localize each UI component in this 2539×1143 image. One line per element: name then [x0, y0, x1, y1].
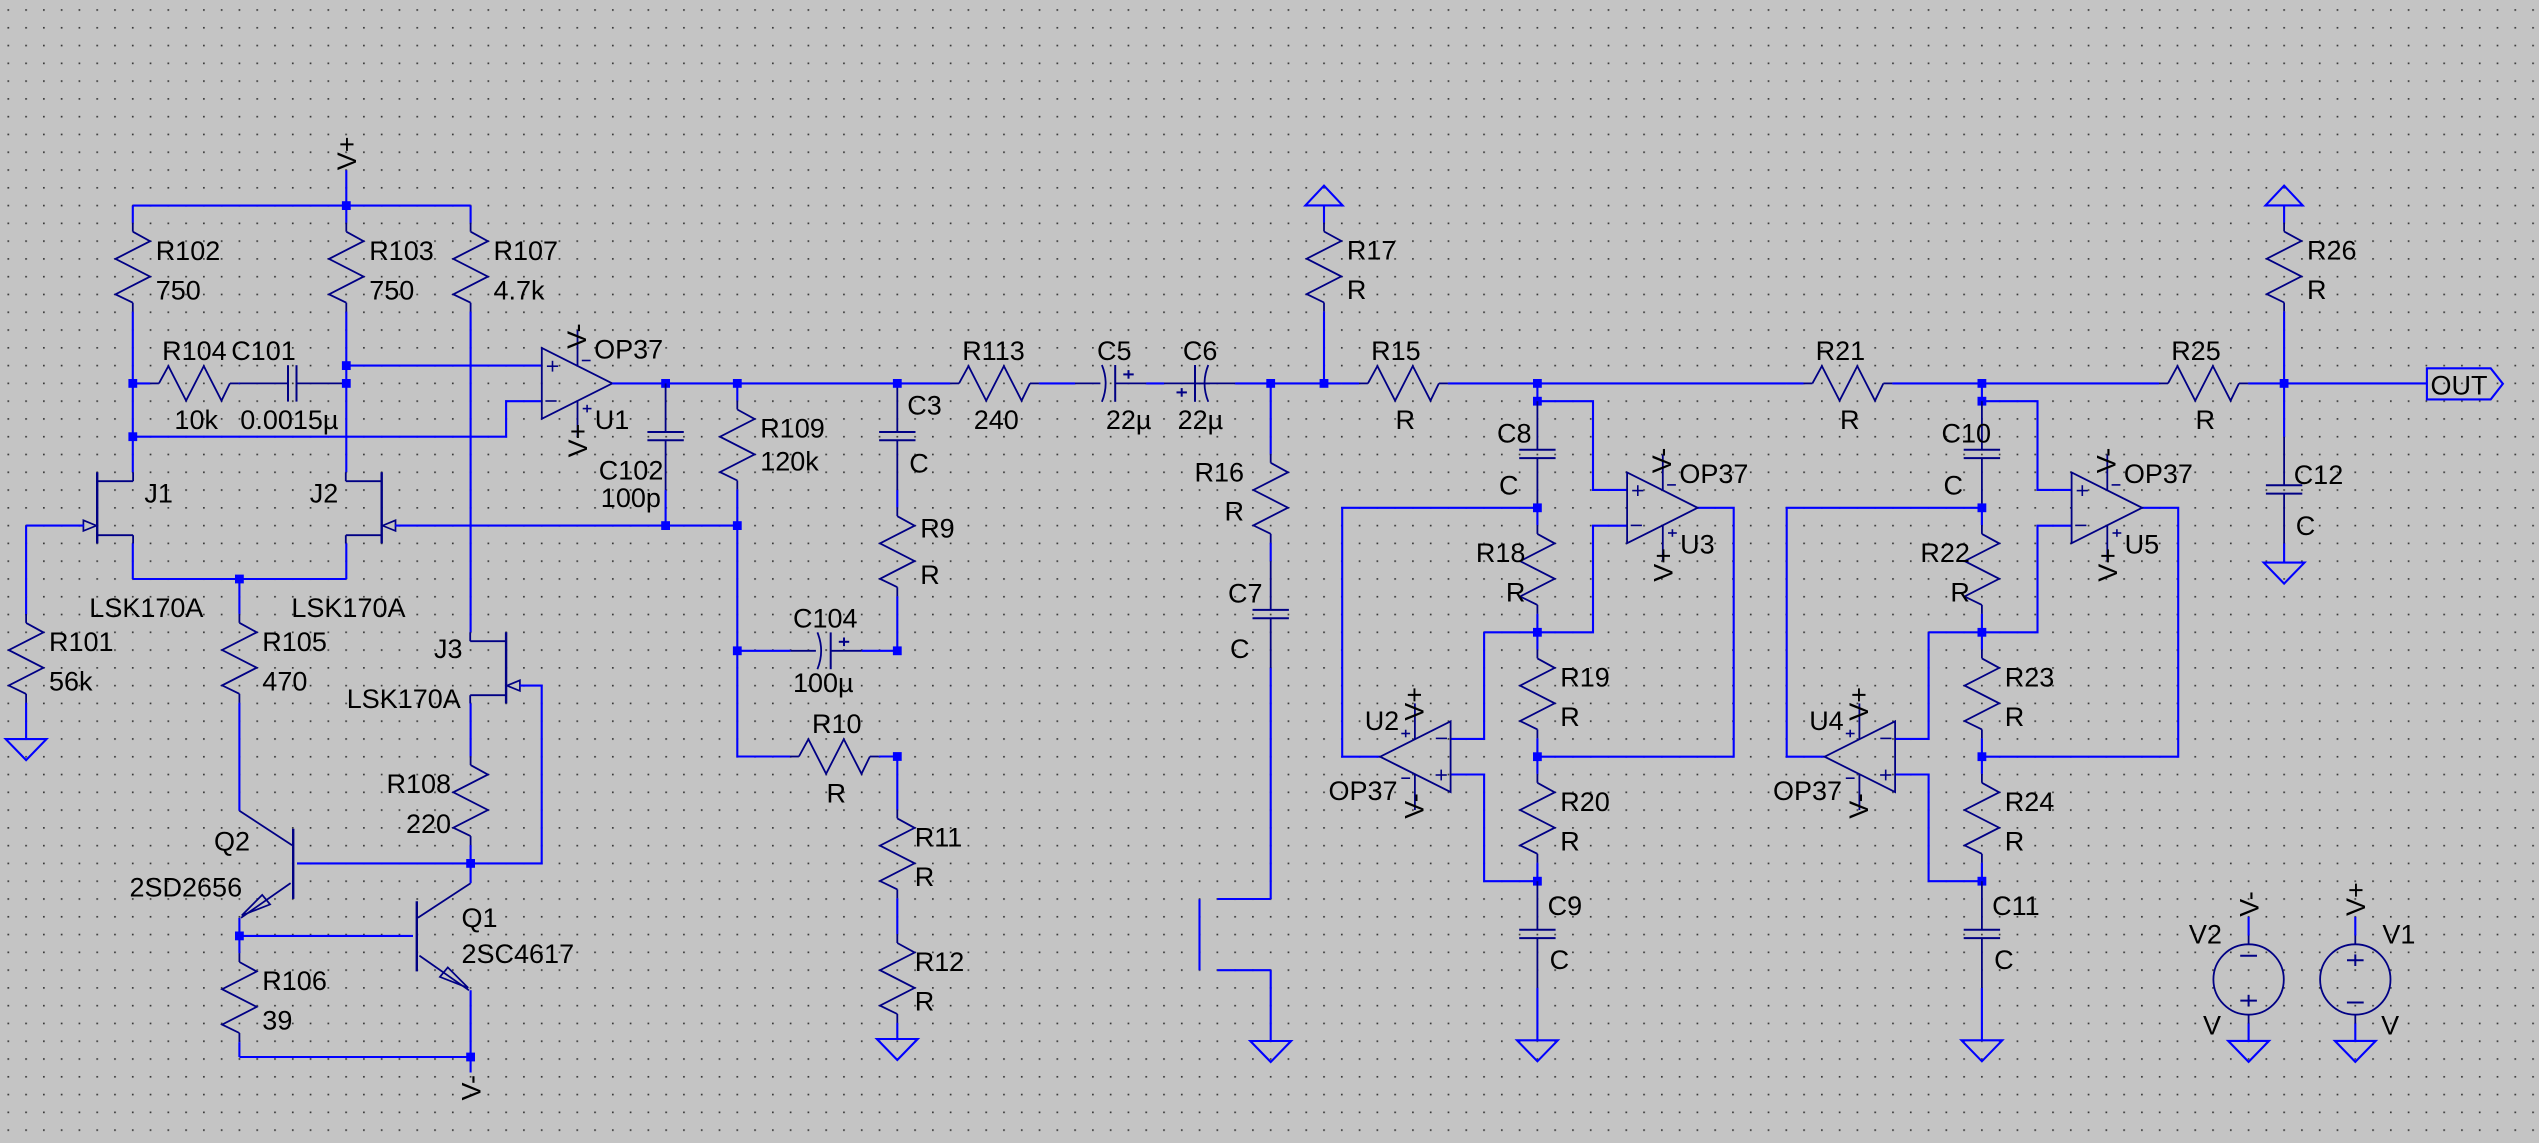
capacitor C102: [599, 383, 684, 513]
svg-text:Q1: Q1: [462, 903, 498, 933]
wire R106 bottom: [238, 1043, 240, 1057]
svg-text:U4: U4: [1809, 706, 1844, 736]
wire to U5 + input: [1982, 401, 2072, 490]
wire source row: [133, 578, 346, 580]
capacitor C9: [1519, 881, 1582, 988]
junction: [342, 361, 351, 370]
svg-text:2SD2656: 2SD2656: [130, 873, 243, 903]
svg-text:100p: 100p: [601, 483, 661, 513]
JFET J1: [83, 472, 203, 623]
wire Q1 base row: [239, 935, 413, 937]
svg-text:OP37: OP37: [1329, 776, 1398, 806]
svg-text:R: R: [920, 560, 940, 590]
svg-text:R10: R10: [812, 709, 862, 739]
svg-text:C101: C101: [231, 336, 296, 366]
wire top rail: [133, 205, 471, 207]
wire R to R junction: [1536, 615, 1538, 633]
svg-text:R106: R106: [262, 966, 327, 996]
resistor R10: [773, 709, 880, 808]
svg-text:22µ: 22µ: [1106, 405, 1152, 435]
op-amp U3: [1627, 448, 1748, 582]
svg-text:V-: V-: [562, 323, 592, 349]
junction: [1978, 752, 1987, 761]
junction: [466, 859, 475, 868]
svg-text:V+: V+: [563, 424, 593, 458]
svg-text:240: 240: [974, 405, 1019, 435]
wire R101 bottom: [25, 704, 27, 740]
wire C102 bottom: [665, 490, 667, 525]
ground: [6, 739, 47, 760]
resistor R19: [1520, 632, 1610, 739]
svg-text:R9: R9: [920, 514, 955, 544]
svg-text:10k: 10k: [174, 405, 218, 435]
junction: [342, 201, 351, 210]
resistor R11: [880, 792, 962, 899]
svg-text:4.7k: 4.7k: [494, 275, 546, 305]
svg-text:C9: C9: [1548, 891, 1583, 921]
resistor R101: [9, 597, 114, 704]
op-amp U5: [2072, 448, 2193, 582]
wire main row to OUT port: [2249, 382, 2427, 384]
svg-text:R101: R101: [49, 627, 114, 657]
resistor R104: [133, 336, 240, 435]
svg-text:V2: V2: [2189, 920, 2222, 950]
wire to U3 - input: [1537, 526, 1627, 633]
svg-text:U2: U2: [1365, 706, 1400, 736]
capacitor C101: [231, 336, 346, 435]
svg-text:C6: C6: [1183, 336, 1218, 366]
svg-text:470: 470: [262, 667, 307, 697]
wire C6 to R15: [1235, 382, 1342, 384]
wire C5 to C6: [1146, 382, 1164, 384]
svg-text:C7: C7: [1228, 579, 1263, 609]
resistor R109: [720, 383, 825, 490]
resistor R106: [222, 936, 327, 1043]
svg-text:J1: J1: [144, 478, 173, 508]
wire Q1 collector: [470, 863, 472, 883]
junction: [1533, 752, 1542, 761]
power flag (up arrow): [1305, 186, 1342, 206]
junction: [466, 1053, 475, 1062]
svg-text:R: R: [1840, 405, 1860, 435]
svg-text:120k: 120k: [760, 447, 819, 477]
ground: [2264, 563, 2305, 584]
resistor R107: [453, 206, 558, 313]
svg-text:C: C: [1499, 471, 1519, 501]
resistor R26: [2267, 205, 2357, 312]
wire R109 column down to R10: [737, 526, 773, 757]
svg-text:C: C: [1230, 634, 1250, 664]
wire U2 output feedback: [1342, 508, 1537, 757]
svg-text:R109: R109: [760, 414, 825, 444]
svg-text:R: R: [1950, 578, 1970, 608]
junction: [893, 752, 902, 761]
wire to ground: [1981, 988, 1983, 1040]
junction: [1266, 379, 1275, 388]
svg-text:39: 39: [262, 1006, 292, 1036]
wire J1 gate: [26, 525, 84, 527]
wire Q1 emitter: [470, 990, 472, 1057]
wire branch down: [1981, 383, 1983, 401]
wire to U3 + input: [1537, 401, 1627, 490]
ground: [1962, 1040, 2003, 1061]
wire R107 to J3 drain: [470, 312, 472, 632]
wire U5 output feedback: [1982, 508, 2178, 757]
junction: [893, 379, 902, 388]
wire: [1536, 739, 1538, 757]
svg-text:R20: R20: [1560, 787, 1610, 817]
transistor Q1: [417, 883, 574, 990]
resistor R16: [1194, 437, 1288, 544]
wire: [1536, 863, 1538, 881]
op-amp U1: [542, 323, 663, 457]
svg-text:LSK170A: LSK170A: [291, 593, 405, 623]
svg-text:R24: R24: [2005, 787, 2055, 817]
wire R113 to C5: [1040, 382, 1076, 384]
resistor R24: [1965, 757, 2055, 864]
svg-text:V+: V+: [1399, 687, 1429, 721]
capacitor C6 (polarized): [1164, 336, 1235, 435]
svg-text:R105: R105: [262, 627, 327, 657]
wire U2 + input: [1451, 775, 1538, 882]
wire R11 to R12: [896, 899, 898, 917]
svg-text:R17: R17: [1347, 236, 1397, 266]
wire R9 bottom: [896, 597, 898, 651]
svg-text:V+: V+: [332, 136, 362, 170]
wire to ground: [1536, 988, 1538, 1040]
svg-text:R26: R26: [2307, 236, 2357, 266]
JFET J2: [291, 472, 405, 623]
resistor R9: [880, 490, 955, 597]
svg-text:OUT: OUT: [2431, 370, 2488, 400]
junction: [128, 432, 137, 441]
svg-text:2SC4617: 2SC4617: [462, 939, 575, 969]
capacitor C11: [1964, 881, 2040, 988]
svg-text:V: V: [2381, 1011, 2399, 1041]
junction: [2280, 379, 2289, 388]
svg-text:U3: U3: [1680, 530, 1715, 560]
svg-text:C: C: [1944, 471, 1964, 501]
svg-text:OP37: OP37: [1679, 459, 1748, 489]
wire R12 bottom: [896, 1024, 898, 1039]
wire bottom row: [239, 1056, 470, 1058]
capacitor C10: [1942, 401, 2001, 508]
net V- flag stub: [470, 1057, 472, 1073]
svg-text:R: R: [1560, 702, 1580, 732]
wire R103 node to U1 + input: [346, 365, 542, 367]
junction: [1533, 628, 1542, 637]
svg-text:R102: R102: [156, 236, 221, 266]
wire C104 left lead: [737, 650, 790, 652]
resistor R17: [1307, 205, 1397, 312]
junction: [733, 521, 742, 530]
capacitor C12: [2266, 437, 2343, 544]
svg-text:R: R: [1506, 578, 1526, 608]
wire R11 top: [896, 757, 898, 793]
ground: [2335, 1041, 2376, 1062]
ground: [877, 1039, 918, 1060]
junction: [235, 575, 244, 584]
svg-text:220: 220: [406, 809, 451, 839]
wire R109 bottom: [736, 490, 738, 525]
svg-text:R108: R108: [386, 769, 451, 799]
svg-text:R: R: [1560, 827, 1580, 857]
svg-text:C104: C104: [793, 604, 858, 634]
junction: [661, 379, 670, 388]
wire R101 top: [25, 526, 27, 597]
svg-text:U5: U5: [2125, 530, 2160, 560]
svg-text:J2: J2: [310, 478, 339, 508]
junction: [128, 379, 137, 388]
svg-text:R: R: [1225, 497, 1245, 527]
svg-text:C: C: [909, 448, 929, 478]
svg-text:C8: C8: [1497, 418, 1532, 448]
power flag (up arrow): [2266, 186, 2303, 206]
svg-text:R15: R15: [1371, 336, 1421, 366]
svg-text:V: V: [2203, 1011, 2221, 1041]
wire V2 top lead: [2248, 917, 2250, 936]
svg-text:R: R: [826, 778, 846, 808]
wire R105 to Q2 collector: [238, 703, 240, 810]
wire to U4 - input: [1929, 631, 1982, 633]
wire R108 bottom: [470, 846, 472, 864]
svg-text:C3: C3: [907, 390, 942, 420]
ground: [1517, 1040, 1558, 1061]
wire U4 + input: [1895, 775, 1982, 882]
svg-text:C: C: [2296, 511, 2316, 541]
junction: [235, 932, 244, 941]
wire U1 output row: [612, 382, 933, 384]
transistor Q2: [130, 811, 294, 918]
wire R105 top: [238, 579, 240, 597]
svg-text:V1: V1: [2382, 920, 2415, 950]
op-amp U4: [1773, 687, 1895, 819]
svg-text:R: R: [2005, 702, 2025, 732]
svg-text:C12: C12: [2294, 460, 2344, 490]
junction: [1978, 503, 1987, 512]
svg-text:OP37: OP37: [2124, 459, 2193, 489]
wire C12 to ground: [2283, 543, 2285, 562]
capacitor C3: [879, 383, 942, 490]
wire R103 bottom: [345, 312, 347, 365]
JFET J3: [347, 632, 520, 714]
svg-text:R113: R113: [962, 336, 1025, 366]
ground: [1250, 1041, 1291, 1062]
wire J2 gate feedback row: [395, 525, 737, 527]
junction: [893, 646, 902, 655]
svg-text:OP37: OP37: [1773, 776, 1842, 806]
resistor R25: [2142, 336, 2249, 435]
wire J1 drain to U1 - input: [133, 401, 542, 437]
svg-text:V-: V-: [1647, 448, 1677, 474]
resistor R105: [222, 597, 327, 704]
svg-text:R23: R23: [2005, 663, 2055, 693]
wire J3 source to R108: [470, 703, 472, 739]
wire J1 source: [132, 543, 134, 579]
svg-text:R11: R11: [915, 823, 963, 853]
svg-text:V+: V+: [1649, 548, 1679, 582]
current source symbol: [1200, 899, 1271, 970]
capacitor C104 (polarized): [791, 604, 862, 699]
svg-text:V-: V-: [1844, 793, 1874, 819]
resistor R113: [933, 336, 1040, 435]
wire to U2 - input: [1484, 631, 1537, 633]
wire main row: [1893, 382, 2142, 384]
svg-text:0.0015µ: 0.0015µ: [240, 405, 338, 435]
wire U3 output feedback: [1537, 508, 1733, 757]
resistor R15: [1342, 336, 1449, 435]
capacitor C7: [1228, 561, 1289, 668]
wire Q2 emitter: [238, 918, 240, 936]
wire R16 to C7: [1270, 543, 1272, 561]
svg-text:R: R: [915, 862, 935, 892]
net V+ rail flag wire: [345, 170, 347, 205]
svg-text:C: C: [1550, 945, 1570, 975]
svg-text:Q2: Q2: [214, 827, 250, 857]
svg-text:R104: R104: [162, 336, 227, 366]
svg-text:V-: V-: [2234, 891, 2264, 917]
wire J1 drain column: [132, 383, 134, 472]
junction: [1533, 397, 1542, 406]
junction: [1320, 379, 1329, 388]
svg-text:R: R: [1395, 405, 1415, 435]
resistor R21: [1786, 336, 1893, 435]
svg-text:R103: R103: [369, 236, 434, 266]
wire R17 bottom: [1323, 312, 1325, 383]
resistor R20: [1520, 757, 1610, 864]
wire J2 drain column: [345, 366, 347, 473]
wire to U5 - input: [1982, 526, 2072, 633]
junction: [342, 379, 351, 388]
junction: [1533, 503, 1542, 512]
svg-text:V+: V+: [2341, 882, 2371, 916]
svg-text:R25: R25: [2171, 336, 2221, 366]
junction: [1978, 397, 1987, 406]
port OUT: [2427, 368, 2503, 400]
svg-text:100µ: 100µ: [793, 668, 854, 698]
wire J2 source: [345, 543, 347, 579]
wire U4 output feedback: [1787, 508, 1982, 757]
junction: [1978, 628, 1987, 637]
svg-text:R19: R19: [1560, 663, 1610, 693]
junction: [1978, 877, 1987, 886]
svg-text:J3: J3: [434, 634, 463, 664]
resistor R22: [1920, 508, 1999, 615]
svg-text:C5: C5: [1097, 336, 1132, 366]
svg-text:C10: C10: [1942, 418, 1992, 448]
svg-text:C11: C11: [1992, 891, 2040, 921]
wire branch down: [1536, 383, 1538, 401]
svg-text:750: 750: [156, 275, 201, 305]
wire R10 right lead: [880, 755, 898, 757]
wire R26 bottom: [2283, 312, 2285, 383]
wire C7 down to current source: [1270, 668, 1272, 899]
svg-text:V-: V-: [456, 1075, 486, 1101]
svg-text:R107: R107: [494, 236, 559, 266]
resistor R102: [116, 206, 221, 313]
wire R15 to opamp block: [1449, 382, 1787, 384]
resistor R103: [329, 206, 434, 313]
svg-text:750: 750: [369, 275, 414, 305]
voltage source V1: [2320, 920, 2415, 1041]
wire C104 right lead: [862, 650, 898, 652]
ground: [2228, 1041, 2269, 1062]
wire V2 bottom lead: [2248, 1024, 2250, 1041]
wire R to R junction: [1981, 615, 1983, 633]
svg-text:R16: R16: [1194, 458, 1244, 488]
wire: [1981, 863, 1983, 881]
svg-text:C: C: [1994, 945, 2014, 975]
wire R16 top: [1270, 383, 1272, 436]
svg-text:R: R: [2196, 405, 2216, 435]
wire V1 bottom lead: [2354, 1024, 2356, 1041]
op-amp U2: [1329, 687, 1451, 819]
svg-text:OP37: OP37: [594, 334, 663, 364]
resistor R23: [1965, 632, 2055, 739]
svg-text:R: R: [915, 987, 935, 1017]
junction: [661, 521, 670, 530]
junction: [1533, 877, 1542, 886]
svg-text:LSK170A: LSK170A: [347, 684, 461, 714]
svg-text:U1: U1: [595, 405, 630, 435]
svg-text:V-: V-: [1399, 793, 1429, 819]
svg-text:R: R: [1347, 275, 1367, 305]
svg-text:LSK170A: LSK170A: [89, 593, 203, 623]
svg-text:V-: V-: [2092, 448, 2122, 474]
junction: [733, 379, 742, 388]
svg-text:R22: R22: [1920, 538, 1970, 568]
resistor R108: [386, 739, 487, 846]
svg-text:R12: R12: [915, 947, 965, 977]
voltage source V2: [2189, 920, 2284, 1041]
capacitor C5 (polarized): [1075, 336, 1151, 435]
svg-text:R: R: [2307, 275, 2327, 305]
wire C12 top: [2283, 383, 2285, 436]
resistor R12: [880, 917, 964, 1024]
svg-text:R21: R21: [1816, 336, 1866, 366]
svg-text:V+: V+: [2093, 548, 2123, 582]
capacitor C8: [1497, 401, 1556, 508]
svg-text:R: R: [2005, 827, 2025, 857]
wire Q2 base row: [297, 862, 471, 864]
svg-text:56k: 56k: [49, 667, 93, 697]
resistor R18: [1476, 508, 1555, 615]
svg-text:22µ: 22µ: [1178, 405, 1224, 435]
wire R102 bottom: [132, 312, 134, 383]
junction: [1533, 379, 1542, 388]
junction: [1978, 379, 1987, 388]
svg-text:V+: V+: [1844, 687, 1874, 721]
wire: [1981, 739, 1983, 757]
svg-text:R18: R18: [1476, 538, 1526, 568]
junction: [733, 646, 742, 655]
wire J3 gate loop: [471, 686, 542, 864]
wire V1 top lead: [2354, 917, 2356, 936]
svg-text:C102: C102: [599, 456, 664, 486]
wire current source to ground: [1270, 970, 1272, 1041]
